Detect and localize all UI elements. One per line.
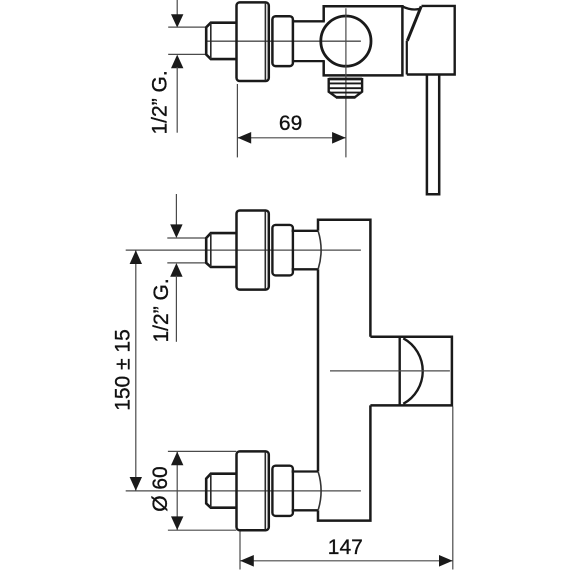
centerline of bottom inlet (bottom figure) [126,490,361,492]
label 1/2" G. (bottom figure, rotated) [150,278,173,342]
svg-text:150 ± 15: 150 ± 15 [112,329,135,411]
dimension Ø60: top extension line [168,450,236,452]
valve body (top figure) [324,6,403,75]
bottom flange face line [264,452,266,530]
flange face line (top figure) [264,3,266,81]
dimension 1/2G bottom: upper tail [175,194,177,225]
svg-text:Ø 60: Ø 60 [149,466,172,512]
outlet thread lines [329,83,362,92]
label 1/2" G. (top figure, rotated) [148,70,171,134]
outlet threaded nipple (top figure) [329,78,362,97]
connecting pipe (top figure) [293,21,325,61]
bottom thread chamfer line [210,474,212,508]
bottom wall flange (bottom figure) [237,451,269,530]
dimension 147: right arrowhead [439,555,453,567]
handle curve (bottom figure) [403,338,422,404]
dimension 1/2G top: up arrowhead [171,55,183,69]
lever rod (top figure) [427,75,439,194]
handle cap inner edge (top figure) [406,41,408,75]
dimension 150±15: down arrowhead [130,477,142,491]
dimension 1/2G top: down arrowhead [171,14,183,27]
extension line (y=262.9) [167,262,207,264]
label 150 ± 15 (rotated) [112,329,135,411]
label 69 [279,112,302,135]
bottom connecting pipe (bottom figure) [292,472,318,511]
dimension 69: left extension line [236,84,238,157]
label 147 [328,536,363,559]
handle centerline (bottom figure) [330,370,450,372]
extension line (y=238) [167,237,207,239]
top pipe-body junction arc [318,231,321,269]
top thread chamfer line [210,233,212,267]
dimension 69: right arrowhead [332,132,346,144]
top flange face line [264,211,266,289]
handle inner edge (bottom figure) [399,337,401,406]
dimension 1/2G bottom: down arrowhead [170,224,182,238]
extension line bottom (y=54.3) [168,53,207,55]
faucet body (bottom figure) [318,220,370,521]
dimension Ø60: down arrowhead [171,516,183,530]
top connecting pipe (bottom figure) [292,231,318,269]
bottom inlet threaded nipple (bottom figure) [206,474,236,508]
dimension Ø60: vertical line [176,451,178,530]
hex nut (top figure) [272,16,293,66]
horizontal centerline of inlet (top figure) [207,40,361,42]
dimension 147: left arrowhead [240,555,254,567]
dimension 69: dimension line [237,137,346,139]
dimension 1/2G bottom: lower tail [175,276,177,342]
vertical centerline of outlet (top figure) [345,8,347,157]
label Ø 60 (rotated) [149,466,172,512]
bottom pipe-body junction arc [318,472,321,510]
handle cap (top figure) [407,6,455,75]
bottom hex nut (bottom figure) [272,466,293,516]
dimension 150±15: vertical line [135,250,137,491]
svg-text:1/2” G.: 1/2” G. [150,278,173,342]
handle cap dome curve (top figure) [403,7,420,10]
extension line top (y=27) [168,26,207,28]
top inlet threaded nipple (bottom figure) [206,233,236,267]
outlet bottom edge [336,96,355,99]
dimension 1/2G top: lower tail line [176,67,178,133]
threaded nipple (top figure) [206,23,236,59]
dimension 147: dimension line [240,560,453,562]
dimension Ø60: bottom extension line [168,529,236,531]
dimension 1/2G top: upper tail line [176,0,178,15]
cartridge circle (top figure) [321,16,371,66]
svg-text:147: 147 [328,536,363,559]
handle cap diagonal (top figure) [407,6,421,41]
top wall flange (bottom figure) [237,211,269,290]
handle block (bottom figure) [370,337,452,406]
dimension 147: right extension line [452,407,454,570]
dimension 1/2G bottom: up arrowhead [170,263,182,277]
thread chamfer boundary line (top figure) [210,23,212,59]
outlet top edge [329,78,362,81]
top hex nut (bottom figure) [272,225,293,276]
dimension 147: left extension line [239,532,241,570]
dimension Ø60: up arrowhead [171,452,183,466]
svg-text:1/2” G.: 1/2” G. [148,70,171,134]
dimension 150±15: up arrowhead [130,250,142,264]
wall flange (top figure) [237,2,269,81]
centerline of top inlet (bottom figure) [126,249,361,251]
svg-text:69: 69 [279,112,302,135]
dimension 69: left arrowhead [238,132,252,144]
